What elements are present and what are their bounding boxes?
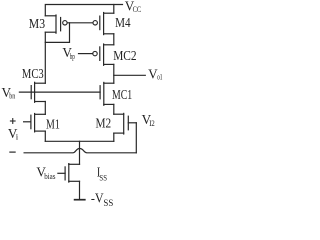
wire M3 drain / left spine upper [44,32,46,83]
svg-text:bp: bp [70,51,76,61]
transistor M3 [45,15,60,33]
wire M1 source riser [44,131,46,141]
transistor M4 [93,13,114,35]
wire tail source riser [79,181,81,199]
wire tail drop [79,141,81,164]
wire Vi minus line with jump [24,149,136,153]
wire M2 gate drop [135,123,137,153]
svg-text:M2: M2 [96,116,112,131]
wire MC1 source to M2 drain [113,104,115,114]
wire M4 source riser [113,5,115,14]
svg-text:CC: CC [133,4,142,14]
transistor MC3 [31,82,45,102]
wire MC2 drain to MC1 drain [113,64,115,83]
wire VCC rail [45,5,122,16]
transistor M1 [24,114,46,132]
svg-text:-V: -V [91,190,104,205]
label Vi [8,126,19,142]
wire M3-M4 gate link [67,22,92,24]
wire tail node line [45,140,114,142]
svg-text:M1: M1 [46,116,60,131]
label Vbp [62,45,75,61]
svg-text:MC1: MC1 [112,87,132,102]
label VI2 [142,112,155,128]
svg-text:bias: bias [44,171,56,181]
wire Vbp lead [79,53,93,55]
wire Vo1 output stub [114,74,146,76]
svg-text:i: i [16,132,19,142]
svg-text:bn: bn [9,90,15,100]
wire M4 drain to MC2 source [113,34,115,45]
label Vbn [2,85,16,100]
svg-text:o1: o1 [157,72,162,82]
bubble M3 gate [63,21,67,25]
label Vo1 [148,67,162,82]
label -VSS [91,190,113,208]
transistor Mbias tail [58,164,80,183]
wire Vbn bias line [19,91,100,93]
svg-text:M4: M4 [115,15,131,30]
minus sign Vi [10,151,15,153]
svg-text:M3: M3 [29,16,46,31]
svg-text:I2: I2 [149,118,155,128]
wire M3 gate diode tap [45,23,69,43]
transistor MC2 [93,44,114,65]
VSS terminal bar [75,199,85,201]
transistor M2 [114,113,137,134]
wire MC3 source to M1 drain [44,102,46,115]
plus sign Vi [10,119,15,124]
label VCC [125,0,141,14]
svg-text:MC3: MC3 [22,66,44,81]
svg-text:SS: SS [103,198,113,208]
label ISS [97,164,107,182]
label Vbias [36,164,56,181]
svg-text:SS: SS [99,172,107,182]
svg-text:MC2: MC2 [113,48,136,63]
transistor MC1 [100,82,114,105]
wire M2 source riser [113,133,115,141]
